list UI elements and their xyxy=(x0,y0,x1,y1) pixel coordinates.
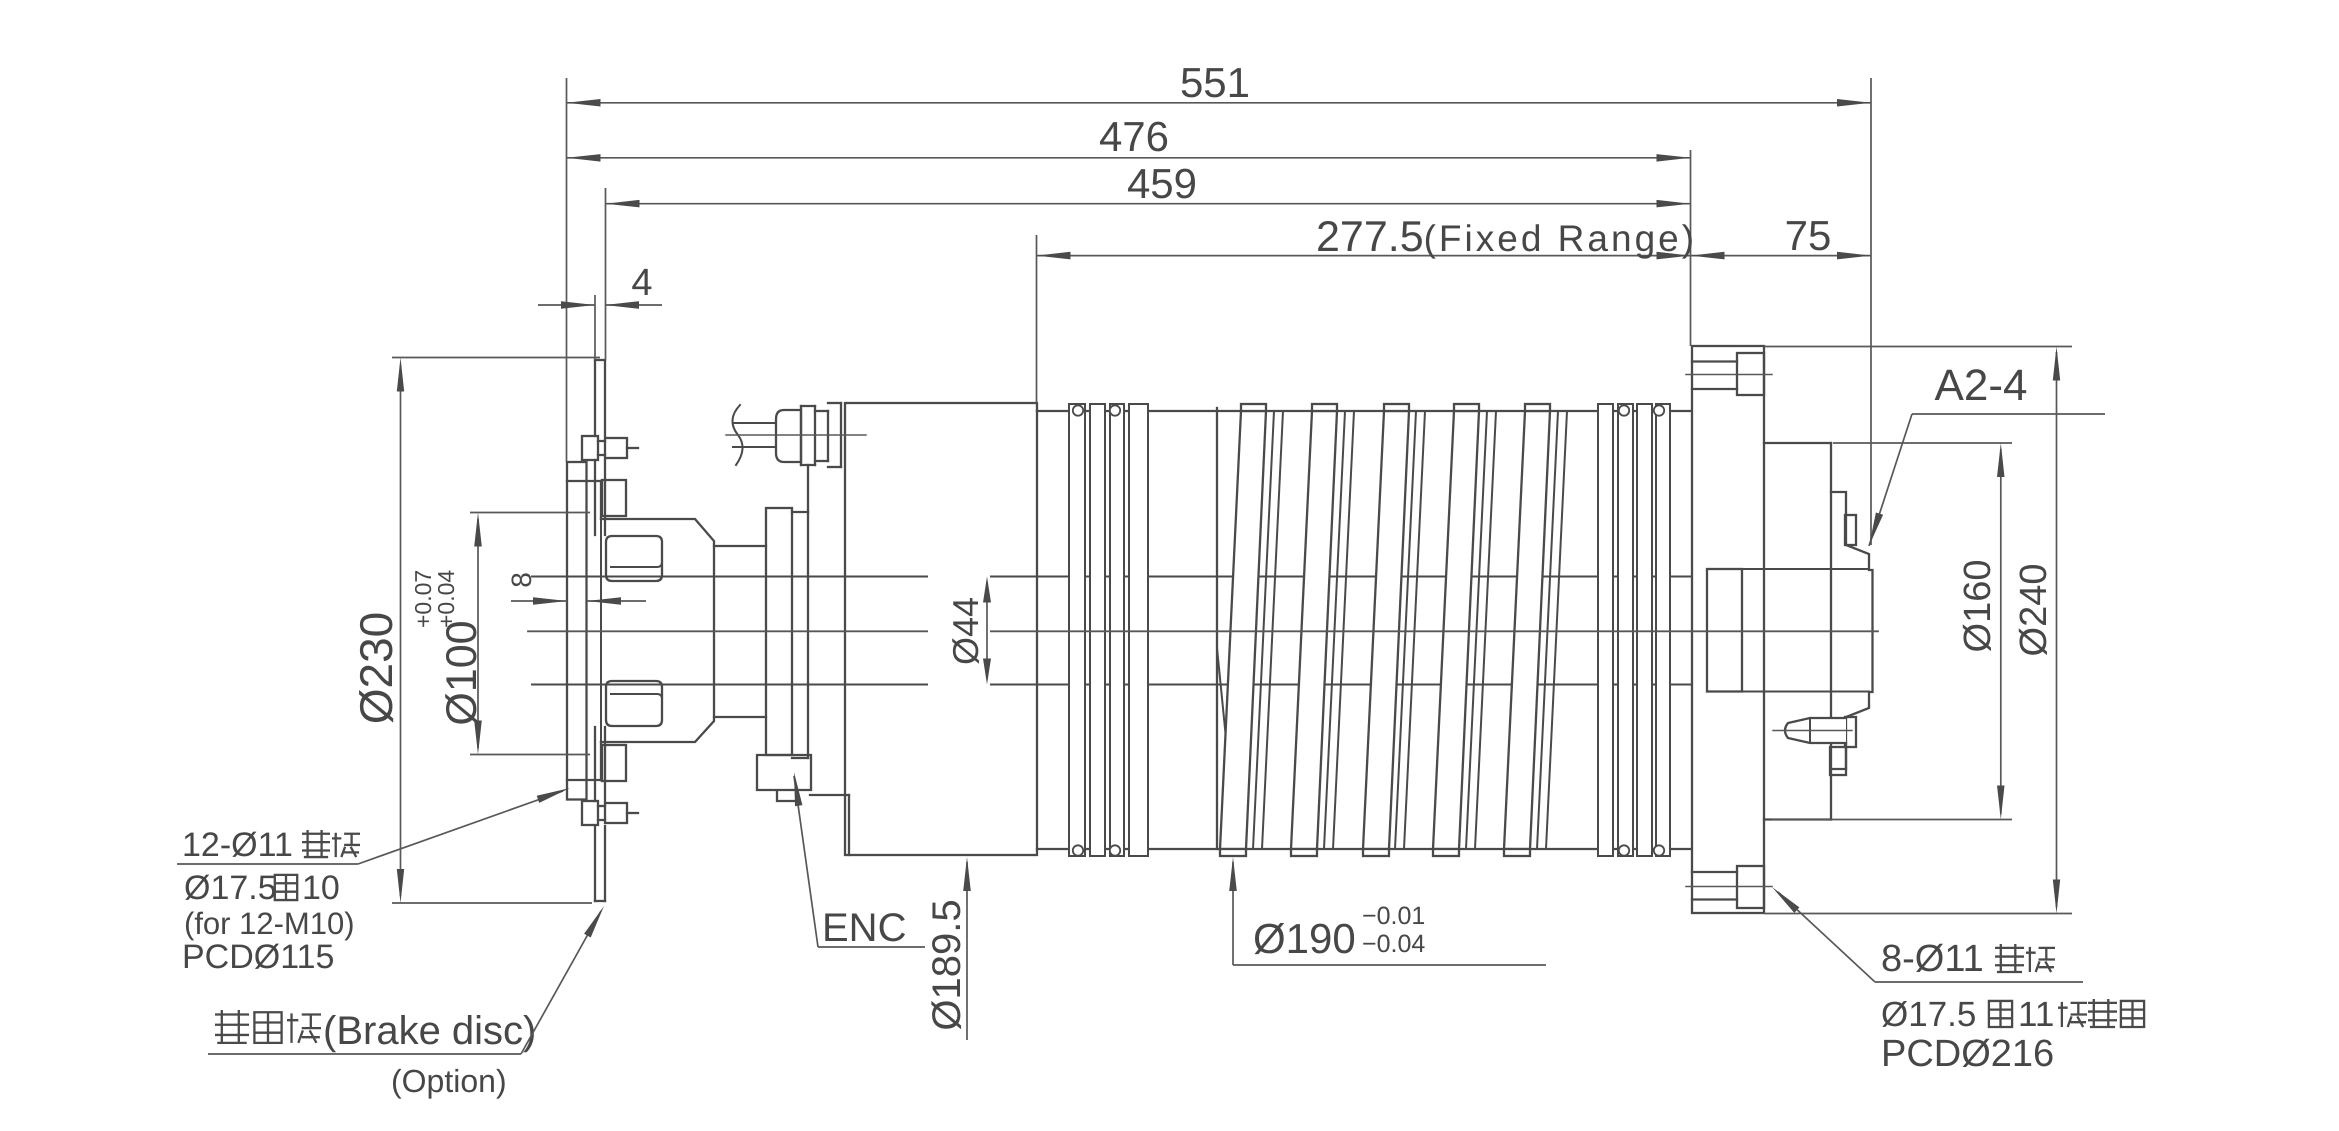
svg-text:551: 551 xyxy=(1180,59,1250,106)
helical fin band 3 xyxy=(1363,411,1409,849)
helical fin ridge 4 xyxy=(1466,411,1487,849)
shaft diameter 44 lines xyxy=(532,576,1692,578)
shaft spigot block xyxy=(1707,569,1742,692)
svg-text:−0.04: −0.04 xyxy=(1362,930,1425,958)
svg-text:PCDØ216: PCDØ216 xyxy=(1881,1033,2054,1075)
helical fin band 2 xyxy=(1291,411,1337,849)
svg-text:8: 8 xyxy=(506,572,537,588)
cooling ring R4 xyxy=(1129,404,1148,856)
svg-text:277.5(Fixed Range): 277.5(Fixed Range) xyxy=(1316,213,1697,261)
encoder plate 2 xyxy=(792,511,808,513)
dim dia230 xyxy=(392,357,600,359)
svg-text:+0.04: +0.04 xyxy=(433,570,459,628)
dim 75 xyxy=(1691,255,1872,257)
svg-text:(for 12-M10): (for 12-M10) xyxy=(184,906,355,941)
dim 551 xyxy=(567,102,1872,104)
svg-text:Ø230: Ø230 xyxy=(350,612,402,725)
note brake disc xyxy=(215,1010,249,1044)
helical fin ridge 1 xyxy=(1253,411,1274,849)
svg-text:8-Ø11: 8-Ø11 xyxy=(1881,938,1984,980)
cable wires xyxy=(733,422,776,424)
cable break mark xyxy=(732,405,742,465)
flange bottom bolt hole xyxy=(1692,871,1737,873)
motor housing block xyxy=(845,403,1037,855)
cooling ring R3 xyxy=(1110,404,1124,856)
dim dia240 xyxy=(1764,346,2072,348)
dim dia44 xyxy=(986,582,988,679)
gland axis line xyxy=(726,434,866,436)
encoder plate 1 xyxy=(766,508,792,755)
nose lower step xyxy=(1830,747,1846,775)
helical fin ridge 5 xyxy=(1537,411,1558,849)
leader arrow to flange hole xyxy=(537,788,570,803)
svg-text:PCDØ115: PCDØ115 xyxy=(182,938,334,976)
kanji chuan xyxy=(332,833,360,857)
kanji shen xyxy=(275,875,297,900)
svg-text:Ø190: Ø190 xyxy=(1253,915,1356,962)
cooling ring R5 xyxy=(1598,404,1613,856)
svg-text:4: 4 xyxy=(631,262,652,304)
brake disc xyxy=(594,360,596,436)
svg-text:476: 476 xyxy=(1099,113,1169,160)
svg-text:−0.01: −0.01 xyxy=(1362,902,1425,930)
svg-text:Ø240: Ø240 xyxy=(2013,564,2055,657)
top bolt through disc xyxy=(582,436,598,460)
dim dia189.5 leader xyxy=(966,862,968,1040)
step shaft xyxy=(714,545,766,547)
svg-text:Ø160: Ø160 xyxy=(1957,560,1999,653)
spindle nose profile xyxy=(1831,492,1873,769)
bottom bolt through disc xyxy=(582,801,598,825)
cable gland body xyxy=(776,410,801,462)
svg-text:ENC: ENC xyxy=(822,906,906,950)
svg-text:Ø17.5: Ø17.5 xyxy=(184,869,277,907)
cooling ring R7 xyxy=(1637,404,1652,856)
svg-text:Ø100: Ø100 xyxy=(438,620,486,725)
dim 4 xyxy=(538,304,595,306)
svg-text:Ø17.5: Ø17.5 xyxy=(1881,995,1976,1034)
leader arrow to flange hole xyxy=(1772,887,1799,913)
svg-text:10: 10 xyxy=(302,869,340,907)
svg-text:Ø189.5: Ø189.5 xyxy=(925,899,969,1030)
nose spigot lines xyxy=(1707,568,1869,570)
helical fin band 1 xyxy=(1220,411,1266,849)
dim 476 xyxy=(567,157,1691,159)
dim dia160 xyxy=(1833,442,2012,444)
flange top bolt hole xyxy=(1692,360,1737,362)
top slot xyxy=(606,536,662,581)
svg-text:(Brake disc): (Brake disc) xyxy=(323,1009,536,1053)
cooling ring R1 xyxy=(1069,404,1085,856)
cooling ring R8 xyxy=(1656,404,1670,856)
rear flange plate xyxy=(1692,346,1764,913)
svg-text:11: 11 xyxy=(2018,995,2054,1034)
cooling ring R6 xyxy=(1618,404,1633,856)
dim 8 xyxy=(511,600,567,602)
cone hub xyxy=(601,519,714,742)
stator core cylinder xyxy=(1037,410,1692,412)
cooling ring R2 xyxy=(1090,404,1105,856)
svg-text:459: 459 xyxy=(1127,160,1197,207)
drive pin xyxy=(1785,718,1846,743)
bolt boss bottom xyxy=(602,745,626,781)
hub plate face xyxy=(600,481,602,780)
helical fin ridge 2 xyxy=(1324,411,1345,849)
o-rings left xyxy=(1073,405,1083,415)
leader arrow to brake disc xyxy=(584,906,604,938)
nose key block xyxy=(1845,515,1856,545)
bolt boss top xyxy=(602,480,626,516)
extension lines top dims xyxy=(566,78,568,462)
dim dia190 leader xyxy=(1232,862,1234,965)
bottom slot xyxy=(606,681,662,726)
kanji zuan xyxy=(302,830,330,858)
svg-text:A2-4: A2-4 xyxy=(1935,361,2028,410)
gap for dia44 dimension xyxy=(928,560,990,700)
dim 277.5 fixed range xyxy=(1037,255,1691,257)
svg-text:75: 75 xyxy=(1785,212,1832,259)
partial helix lead-in xyxy=(1217,648,1237,849)
helical fin band 4 xyxy=(1433,411,1479,849)
helix section boundary xyxy=(1216,408,1218,849)
helical fin ridge 3 xyxy=(1395,411,1416,849)
spindle nose housing xyxy=(1764,442,1831,444)
o-rings right xyxy=(1619,405,1629,415)
gland nut plates xyxy=(801,405,815,407)
flange front plate xyxy=(567,462,587,800)
flange hub plate xyxy=(600,481,602,519)
center axis line xyxy=(528,630,1878,632)
pin axis xyxy=(1773,730,1852,732)
encoder bracket xyxy=(757,755,811,801)
dim 459 xyxy=(606,203,1691,205)
dim dia100 xyxy=(470,512,590,514)
svg-text:12-Ø11: 12-Ø11 xyxy=(182,826,293,864)
svg-text:(Option): (Option) xyxy=(391,1063,507,1099)
svg-text:Ø44: Ø44 xyxy=(945,597,986,665)
helical fin band 5 xyxy=(1504,411,1550,849)
